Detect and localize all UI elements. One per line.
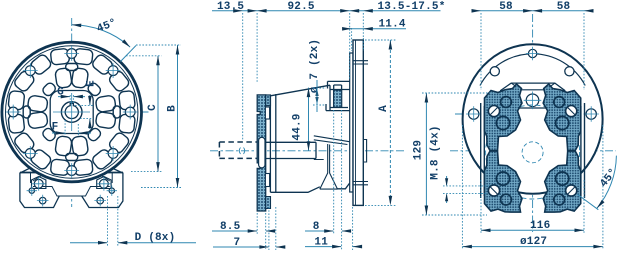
svg-text:A: A — [378, 105, 390, 112]
shaft stub through flange — [353, 61, 368, 185]
dimension C — [126, 56, 162, 172]
svg-text:ø 7 (2x): ø 7 (2x) — [309, 39, 321, 93]
dimension D (8x) — [108, 196, 118, 246]
plate foot block — [266, 197, 271, 209]
svg-text:7: 7 — [234, 237, 241, 249]
dimension dia 127 — [462, 125, 603, 250]
svg-text:8: 8 — [313, 221, 320, 233]
center dashed circle — [522, 142, 543, 163]
side screw right — [586, 109, 596, 119]
pump body outline — [270, 81, 352, 192]
clamp upper-left — [485, 84, 523, 151]
svg-text:11: 11 — [314, 237, 328, 249]
svg-text:B: B — [167, 105, 179, 112]
large dashed bore circle — [486, 105, 580, 199]
dimension 44.9 — [308, 88, 310, 151]
shaft bore with keyway — [65, 103, 78, 118]
hidden shaft (dashed) — [219, 142, 257, 158]
centerline horizontal left view — [1, 111, 150, 113]
foot screw holes — [34, 179, 43, 188]
svg-text:92.5: 92.5 — [288, 1, 315, 13]
dimension 11 — [352, 207, 354, 250]
dimension A — [365, 40, 396, 205]
centerline middle view — [210, 150, 404, 152]
gusset rib — [314, 136, 350, 189]
outer flange circle — [2, 42, 142, 182]
dimension F hub — [65, 120, 78, 136]
dimension 8 — [334, 110, 342, 250]
left clamp bar — [481, 103, 485, 198]
clamp upper-right — [543, 84, 581, 151]
port boss — [326, 81, 352, 110]
screw center of boss — [526, 94, 539, 107]
dimension 11.4 — [344, 28, 406, 30]
svg-text:F: F — [52, 122, 59, 134]
plate top block — [266, 95, 271, 106]
svg-text:M.8 (4x): M.8 (4x) — [430, 125, 442, 179]
svg-text:13.5: 13.5 — [217, 1, 244, 13]
dimension 7 — [269, 207, 276, 250]
svg-text:D (8x): D (8x) — [135, 232, 176, 244]
svg-text:8.5: 8.5 — [220, 221, 241, 233]
dimension E bore — [75, 105, 93, 118]
flange mounting plate — [350, 53, 353, 192]
inner shoulder circle — [480, 54, 585, 86]
svg-text:58: 58 — [557, 1, 571, 13]
svg-text:E: E — [85, 80, 97, 87]
dimension G keyway — [70, 94, 73, 104]
svg-text:58: 58 — [499, 1, 513, 13]
shaft hub — [61, 102, 82, 123]
dimension 8.5 — [257, 213, 266, 249]
svg-text:13.5-17.5*: 13.5-17.5* — [378, 1, 446, 13]
svg-text:ø127: ø127 — [520, 236, 547, 248]
svg-text:116: 116 — [530, 220, 550, 232]
svg-text:44.9: 44.9 — [292, 113, 304, 140]
svg-text:11.4: 11.4 — [379, 19, 406, 31]
8 flange screw holes D — [125, 107, 135, 117]
center web outline — [50, 91, 93, 134]
dimension 58 / 58 — [481, 13, 584, 90]
bolt hole upper-right — [565, 67, 574, 76]
left view: front face of pump — [1, 18, 150, 208]
casting slot pattern — [8, 48, 135, 175]
top dimension chain — [243, 13, 364, 140]
svg-text:G: G — [57, 87, 64, 99]
mounting plate (section fill) — [257, 95, 266, 211]
port hole section — [334, 90, 342, 107]
svg-text:129: 129 — [412, 140, 424, 160]
side screw left — [469, 109, 479, 119]
centerline vertical left view — [71, 18, 73, 207]
outer flange ellipse rear — [463, 44, 603, 194]
mounting foot bracket — [20, 168, 123, 208]
clamp lower-right — [543, 151, 581, 212]
bolt hole upper-left — [490, 67, 499, 76]
right clamp bar — [581, 103, 585, 198]
screw top on bolt circle — [528, 49, 536, 57]
svg-text:C: C — [147, 104, 159, 111]
dimension B — [136, 45, 181, 188]
centerline horizontal right view — [450, 114, 616, 151]
bolt boss lower — [265, 174, 269, 187]
dimension 129 — [422, 93, 490, 215]
shaft collar boss on plate — [259, 137, 265, 168]
centerline vertical right view — [532, 14, 534, 232]
top boss panel — [501, 83, 565, 108]
dimension 116 — [481, 180, 584, 233]
dimension 45deg bottom right — [578, 194, 599, 209]
clamp lower-left — [485, 151, 523, 212]
dimension 45deg arc top left view — [72, 25, 130, 47]
shaft bore lines inside body — [266, 142, 316, 158]
shaft break mark — [239, 148, 245, 155]
bolt boss upper — [265, 107, 269, 119]
